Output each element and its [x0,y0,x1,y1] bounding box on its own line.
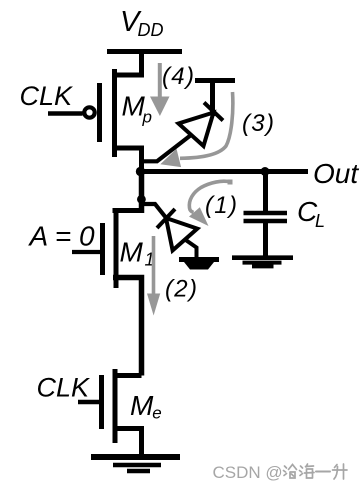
wire output line [139,169,308,174]
glyph sheng [333,464,348,479]
transistor Me channel [113,369,118,443]
transistor Me gate plate [99,375,104,429]
label (4) [162,63,195,90]
wire rail out-node down to M1 drain [139,172,145,214]
wire M1 drain lead [113,208,142,213]
wire CLK to Mp gate [48,111,83,116]
wire bar to diode D3 cathode [210,81,215,117]
svg-text:DD: DD [138,20,164,40]
terminal bar top-right (VDD for diode 3) [195,78,235,83]
arrow (4) gray [150,63,170,116]
transistor Mp gate bubble [84,107,94,117]
glyph cang [284,465,297,479]
ground under CL [232,258,293,267]
label CLK bottom [37,373,91,403]
capacitor CL bottom wire [263,223,268,256]
label (3) [242,110,275,137]
power rail VDD [107,49,182,54]
capacitor CL plates [244,213,288,221]
svg-text:M: M [120,237,144,268]
wire A underline to M1 gate [72,250,105,254]
label CLK top [20,81,74,111]
diode D3 triangle [179,113,214,147]
label M1 [120,237,155,270]
diode D3 cathode bar [204,103,223,121]
svg-text:M: M [130,390,154,421]
arrow (2) gray [147,236,160,316]
junction dot at Mp drain / out [136,167,145,176]
transistor Q Mp (PMOS) channel [112,69,117,157]
svg-text:CLK: CLK [20,81,74,111]
transistor Mp gate plate [97,83,102,142]
wire Me source lead to ground [113,429,142,457]
wire M1 source lead [113,278,142,376]
capacitor CL top wire [263,172,268,212]
junction dot at diode D1 tap [137,195,146,204]
transistor M1 gate plate [100,223,105,275]
wire Me drain lead [113,373,142,378]
svg-text:(4): (4) [162,63,195,90]
junction dot at CL tap [261,167,270,176]
svg-text:A = 0: A = 0 [28,221,96,252]
diode D1 cathode bar [157,209,175,228]
glyph hai [300,464,315,478]
arrow (3) gray curved [160,92,233,167]
label Me [130,390,162,423]
arrow (1) gray curved [189,180,233,227]
glyph yi [316,471,330,473]
node VDD label [120,6,164,40]
wire node to diode D1 cathode [139,204,171,224]
diode D1 triangle [166,218,197,250]
transistor M1 channel [114,209,119,288]
label A = 0 [28,221,96,252]
label Out [313,158,359,189]
wire CLK to Me gate [78,400,104,405]
label Mp [122,91,152,127]
svg-text:CSDN @: CSDN @ [213,463,283,482]
wire diode D3 anode to node [139,135,191,161]
wire diode D1 anode to ground [185,240,197,259]
ground under diode D1 [179,260,219,270]
svg-text:p: p [142,108,152,127]
svg-text:(2): (2) [165,276,198,303]
svg-text:Out: Out [313,158,359,189]
wire Mp drain lead [113,148,142,174]
svg-text:(1): (1) [205,192,238,219]
svg-text:e: e [152,404,161,423]
svg-text:CLK: CLK [37,373,91,403]
watermark CSDN [213,463,348,482]
svg-text:(3): (3) [242,110,275,137]
label CL [297,196,325,231]
svg-text:L: L [315,211,325,231]
label (2) [165,276,198,303]
wire VDD stub to Mp source [113,54,142,75]
label (1) [205,192,238,219]
ground main under Me [91,457,180,471]
